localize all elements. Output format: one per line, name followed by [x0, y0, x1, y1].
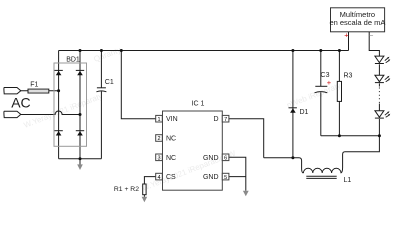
svg-text:F1: F1	[30, 81, 38, 88]
svg-text:BD1: BD1	[66, 56, 80, 63]
svg-text:6: 6	[224, 156, 227, 162]
svg-text:R3: R3	[344, 73, 353, 80]
svg-text:4: 4	[157, 175, 160, 181]
svg-text:C1: C1	[105, 79, 114, 86]
svg-text:5: 5	[224, 175, 227, 181]
svg-text:NC: NC	[166, 136, 176, 143]
svg-text:R1 + R2: R1 + R2	[114, 186, 139, 193]
svg-text:3: 3	[157, 156, 160, 162]
svg-text:D: D	[213, 116, 218, 123]
svg-text:GND: GND	[203, 155, 219, 162]
svg-text:en escala de mA: en escala de mA	[329, 18, 385, 27]
svg-text:2: 2	[157, 136, 160, 142]
svg-text:L1: L1	[344, 177, 352, 184]
svg-text:CS: CS	[166, 174, 176, 181]
svg-text:+: +	[344, 31, 349, 40]
svg-text:+: +	[327, 78, 332, 87]
svg-text:D1: D1	[300, 109, 309, 116]
svg-text:IC 1: IC 1	[192, 100, 205, 107]
svg-text:7: 7	[224, 117, 227, 123]
svg-text:AC: AC	[11, 95, 30, 111]
svg-text:NC: NC	[166, 155, 176, 162]
svg-text:VIN: VIN	[166, 116, 178, 123]
svg-text:GND: GND	[203, 174, 219, 181]
svg-text:1: 1	[157, 117, 160, 123]
